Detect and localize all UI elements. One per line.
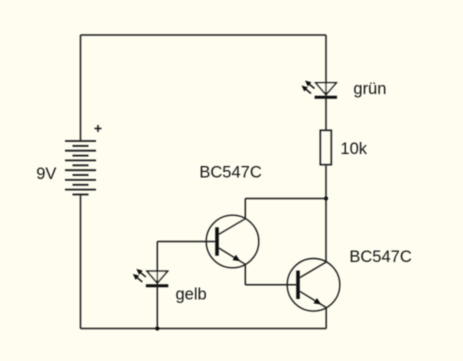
transistor Q2 BC547C	[287, 259, 340, 312]
wire resistor to node	[325, 165, 327, 199]
node junction below resistor	[324, 196, 328, 200]
svg-text:BC547C: BC547C	[199, 164, 261, 182]
wire Q1 base (horizontal from gelb branch)	[157, 241, 215, 243]
LED D1 grun	[315, 83, 337, 98]
wire battery bottom to bottom rail	[80, 195, 82, 329]
resistor R1 10k	[320, 130, 331, 164]
svg-text:BC547C: BC547C	[349, 248, 411, 266]
LED D2 light arrows	[133, 269, 146, 282]
wire left vertical (battery + to top)	[80, 35, 82, 141]
battery B1 9V	[65, 141, 96, 195]
wire top horizontal	[81, 34, 327, 36]
svg-text:10k: 10k	[340, 140, 367, 158]
wire Q2 emitter vertical to bottom rail	[325, 308, 327, 329]
wire T1 collector vertical	[244, 199, 246, 219]
wire Q1 emitter to Q2 base (horizontal)	[245, 284, 296, 286]
LED D2 gelb	[146, 271, 168, 286]
svg-text:grün: grün	[353, 80, 386, 98]
wire node to T1 collector (horizontal)	[245, 198, 326, 200]
wire Q2 collector vertical to node	[325, 199, 327, 263]
wire gelb LED cathode to bottom rail	[156, 286, 158, 329]
wire LED cathode to resistor	[325, 97, 327, 130]
wire gelb branch vertical down to LED	[156, 242, 158, 286]
node junction bottom rail / gelb	[155, 326, 159, 330]
svg-text:9V: 9V	[36, 165, 56, 183]
LED D1 light arrows	[302, 81, 315, 94]
wire Q1 emitter vertical	[244, 264, 246, 285]
wire grun LED anode (top right vertical)	[325, 35, 327, 97]
svg-text:gelb: gelb	[176, 285, 207, 303]
battery plus sign	[95, 125, 102, 132]
transistor Q1 BC547C	[206, 215, 259, 268]
wire bottom rail	[81, 328, 327, 330]
